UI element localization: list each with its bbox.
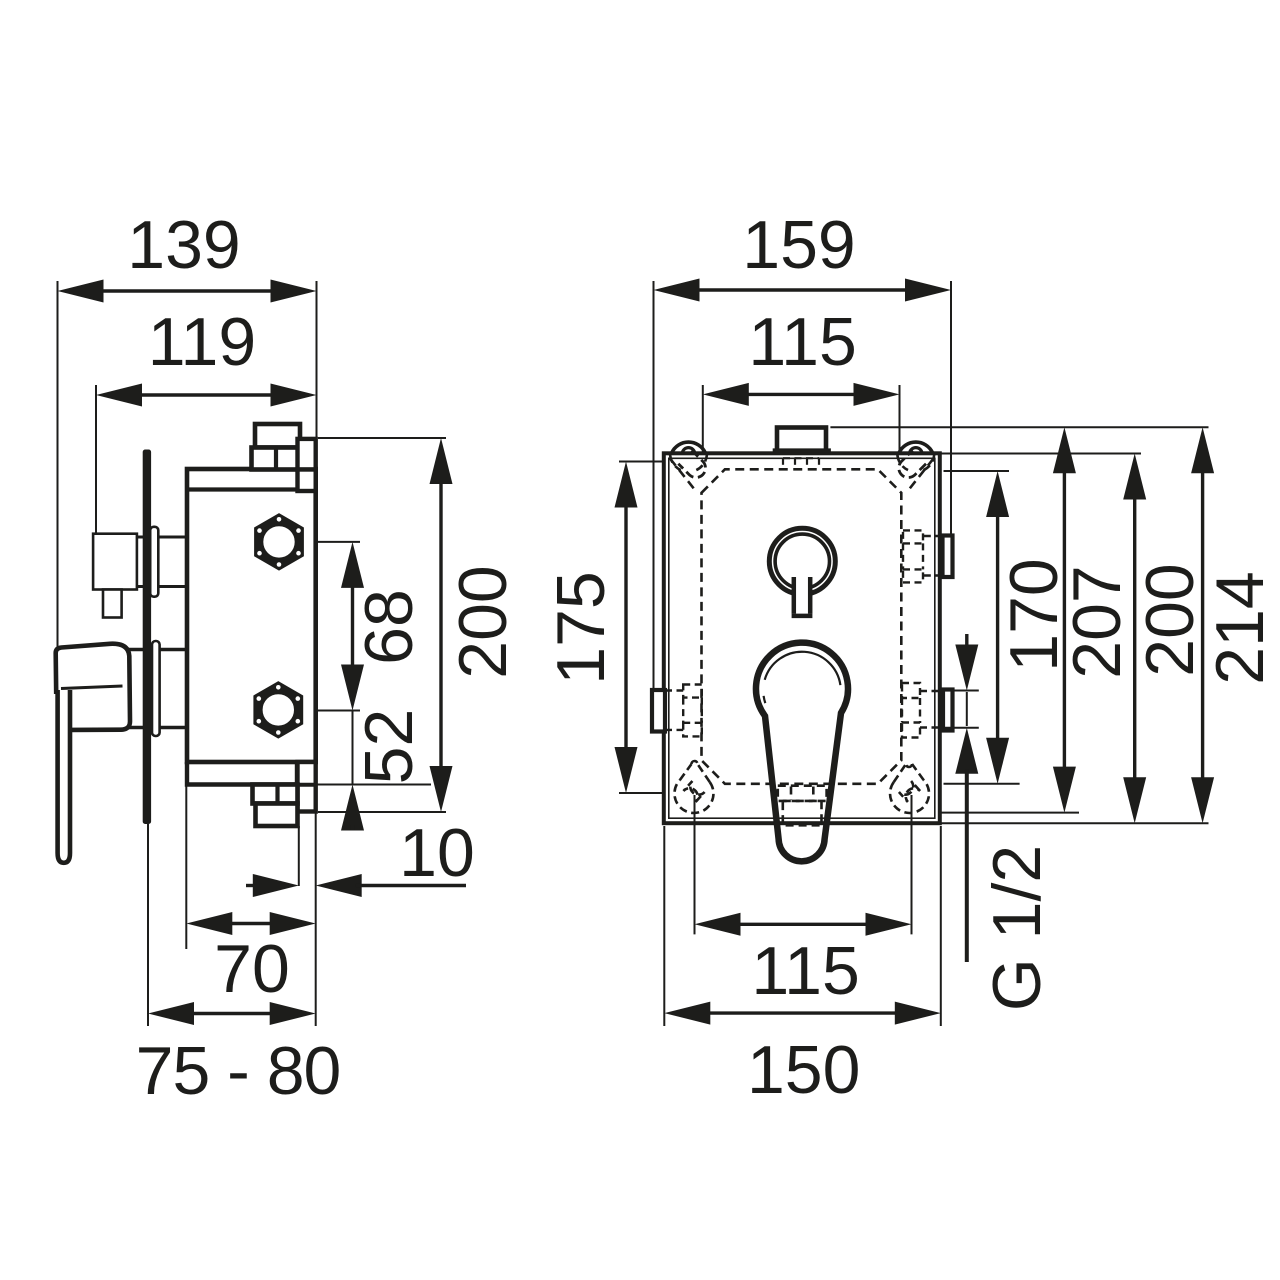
bottom port cap xyxy=(256,804,298,827)
leader top port (200 dim top) xyxy=(318,437,446,439)
svg-text:159: 159 xyxy=(742,207,855,283)
right lower port hidden xyxy=(902,683,939,738)
svg-text:52: 52 xyxy=(351,709,427,785)
cartridge sleeve collar xyxy=(152,641,160,736)
inlet connector stub xyxy=(103,590,122,618)
label 150 xyxy=(747,1032,860,1108)
right upper port hidden xyxy=(903,530,939,582)
label 115 bottom xyxy=(751,933,859,1009)
extension line 115 bottom right xyxy=(911,795,913,934)
extension line 150 left xyxy=(663,826,665,1026)
label 70 xyxy=(214,931,290,1007)
upper sleeve collar xyxy=(150,527,158,597)
dimension line 175 xyxy=(615,462,638,794)
leader lower hex center xyxy=(282,710,360,712)
label 214 xyxy=(1202,571,1278,684)
dimension line 207 xyxy=(1053,427,1076,812)
leader bottom port (200 dim bottom) xyxy=(318,811,446,813)
top-right tab slot xyxy=(899,450,926,477)
label 207 xyxy=(1059,565,1135,678)
mounting box inner line xyxy=(669,458,935,818)
extension line 159 left xyxy=(653,281,655,689)
diverter knob stem xyxy=(792,559,813,616)
extension line body right lower (10/70/75-80 dims) xyxy=(315,812,317,1026)
dimension line 68 xyxy=(341,542,364,711)
leader inner frame bottom (170) xyxy=(944,783,1020,785)
label 75 - 80 xyxy=(136,1033,341,1109)
dimension line 200 side view xyxy=(430,438,453,812)
label 200 side view xyxy=(445,565,521,678)
extension line 115 top left xyxy=(702,385,704,452)
right lower port stub xyxy=(943,690,953,731)
top port hidden lines xyxy=(783,458,819,469)
leader inner frame top (170) xyxy=(944,470,1010,472)
gusset top-right xyxy=(907,459,934,493)
top port front xyxy=(773,428,831,453)
dashed inner frame xyxy=(702,469,902,784)
top port cap xyxy=(255,424,300,448)
leader box bottom (200/214) xyxy=(942,822,1209,824)
svg-text:150: 150 xyxy=(747,1032,860,1108)
bottom-right tab keyhole xyxy=(890,764,929,813)
bottom port hidden row xyxy=(778,786,827,801)
dimension line 139 xyxy=(58,280,317,303)
extension line at inlet block (119 dim) xyxy=(95,385,97,533)
top-left tab slot xyxy=(678,450,705,477)
bottom flange xyxy=(187,762,297,785)
svg-text:70: 70 xyxy=(214,931,290,1007)
extension line 150 right xyxy=(940,826,942,1026)
top port mid xyxy=(252,448,300,470)
svg-text:119: 119 xyxy=(148,304,256,380)
label 139 xyxy=(127,207,240,283)
svg-text:115: 115 xyxy=(751,933,859,1009)
dimension line 159 xyxy=(654,279,952,302)
extension line 115 top right xyxy=(899,385,901,468)
body flange line xyxy=(189,487,314,491)
label G 1/2 xyxy=(979,845,1055,1011)
extension line escutcheon (75-80 dim) xyxy=(147,824,149,1026)
extension line 159 right xyxy=(950,281,952,535)
cartridge stem lines xyxy=(128,650,187,728)
dimension line 150 xyxy=(664,1002,941,1025)
extension line right of body (139/119 dims) xyxy=(316,281,318,438)
svg-text:115: 115 xyxy=(748,304,856,380)
leader slot bottom (207) xyxy=(930,812,1079,814)
leader body bottom step (52 dim) xyxy=(316,784,431,786)
mixer lever front xyxy=(756,643,848,862)
extension line bottom port left (10 dim) xyxy=(298,826,300,886)
handle head (side view) xyxy=(56,644,130,730)
leader box top (200) xyxy=(942,453,1142,455)
dimension line 115 bottom xyxy=(695,913,912,936)
label 10 xyxy=(399,815,475,891)
extension line 115 bottom left xyxy=(694,795,696,934)
label 200 front view xyxy=(1132,563,1208,676)
leader port top (207/214) xyxy=(830,426,1208,428)
dimension line 119 xyxy=(96,384,317,407)
label 175 xyxy=(543,571,619,684)
label 170 xyxy=(996,558,1072,671)
svg-text:139: 139 xyxy=(127,207,240,283)
extension line left of handle (139 dim) xyxy=(57,281,59,648)
label 119 xyxy=(148,304,256,380)
label 52 xyxy=(351,709,427,785)
diverter knob rings xyxy=(769,528,835,594)
top port rear column xyxy=(298,439,316,470)
label 159 xyxy=(742,207,855,283)
leader bottom slot center (175) xyxy=(619,792,691,794)
leader top slot center (175) xyxy=(619,461,693,463)
bottom-left tab keyhole xyxy=(674,761,713,813)
leader upper hex center xyxy=(283,541,360,543)
svg-text:175: 175 xyxy=(543,571,619,684)
svg-text:200: 200 xyxy=(1132,563,1208,676)
upper hex nut xyxy=(255,514,304,570)
left lower port hidden xyxy=(665,685,702,737)
svg-text:207: 207 xyxy=(1059,565,1135,678)
dimension line 115 top xyxy=(703,383,900,406)
svg-text:200: 200 xyxy=(445,565,521,678)
svg-text:75 - 80: 75 - 80 xyxy=(136,1033,341,1109)
dimension line 170 xyxy=(986,471,1009,784)
label 68 xyxy=(351,589,427,665)
bottom port mid xyxy=(253,785,298,804)
dimension line 214 xyxy=(1191,427,1214,823)
top-right tab boss xyxy=(897,442,934,470)
svg-text:10: 10 xyxy=(399,815,475,891)
lower hex nut xyxy=(254,682,303,738)
handle lever (side view) xyxy=(58,690,70,863)
left lower port stub xyxy=(652,690,665,732)
handle head split line xyxy=(61,686,123,689)
bottom rear column xyxy=(298,762,316,812)
extension line body left lower (70 dim) xyxy=(185,785,187,949)
top-left tab boss xyxy=(670,442,707,470)
svg-text:68: 68 xyxy=(351,589,427,665)
svg-text:214: 214 xyxy=(1202,571,1278,684)
inlet connector block xyxy=(93,534,137,590)
top rear corner block xyxy=(298,470,316,492)
dimension line 52 xyxy=(341,711,364,831)
right upper port stub xyxy=(943,536,953,578)
gusset top-left xyxy=(670,459,697,493)
dimension line 10 xyxy=(246,874,466,897)
dimension line 75-80 xyxy=(148,1002,316,1025)
upper inlet pipe lines xyxy=(136,537,187,587)
mixer lever inner line xyxy=(764,652,841,703)
label 115 top xyxy=(748,304,856,380)
dimension line 200 front view xyxy=(1123,454,1146,824)
escutcheon plate xyxy=(143,450,150,824)
dimension line 70 xyxy=(186,912,315,935)
valve body (side view) xyxy=(187,469,316,762)
port gap dimension xyxy=(943,634,979,962)
bottom port hidden cap xyxy=(783,801,822,825)
svg-text:G 1/2: G 1/2 xyxy=(979,845,1055,1011)
mounting box outline xyxy=(664,453,940,823)
